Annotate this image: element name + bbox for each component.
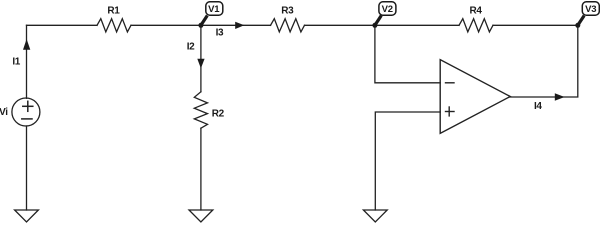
svg-text:I2: I2 <box>187 42 195 53</box>
svg-text:V3: V3 <box>585 4 596 15</box>
svg-text:R3: R3 <box>281 6 294 17</box>
wire V2 to op-amp inverting input <box>375 25 440 83</box>
wire node V2 to R4 <box>375 24 459 26</box>
wire left branch lower <box>26 126 28 210</box>
svg-text:R4: R4 <box>470 6 483 17</box>
resistor R3 <box>271 19 305 32</box>
node flag V3 <box>578 2 600 26</box>
voltage source Vi <box>12 98 40 126</box>
svg-text:I3: I3 <box>216 28 224 39</box>
svg-text:Vi: Vi <box>0 107 8 118</box>
wire R2 branch upper <box>200 25 202 92</box>
node flag V2 <box>375 2 396 26</box>
svg-text:I4: I4 <box>534 101 542 112</box>
wire op-amp output to V3 <box>510 25 578 97</box>
wire R4 to V3 <box>493 24 578 26</box>
svg-text:R2: R2 <box>212 109 225 120</box>
current arrow I2 <box>197 59 204 69</box>
resistor R1 <box>97 19 131 32</box>
ground under op-amp + input <box>363 210 387 222</box>
wire top left segment <box>27 24 98 26</box>
ground under Vi <box>15 210 39 222</box>
wire left branch upper <box>26 25 28 98</box>
svg-text:V1: V1 <box>208 4 220 15</box>
svg-text:R1: R1 <box>107 6 120 17</box>
ground under R2 <box>189 210 213 222</box>
svg-text:I1: I1 <box>12 56 20 67</box>
wire node V1 to R3 <box>201 24 271 26</box>
op-amp U1 <box>440 60 510 134</box>
node V1 junction dot <box>198 23 203 28</box>
wire R3 to node V2 <box>305 24 375 26</box>
current arrow I4 <box>555 93 565 101</box>
wire R2 branch lower <box>200 128 202 210</box>
current arrow I3 <box>235 22 244 29</box>
node V2 junction dot <box>372 23 377 28</box>
node V3 junction dot <box>575 23 580 28</box>
current arrow I1 <box>23 39 30 50</box>
resistor R2 <box>194 92 207 128</box>
wire ground to op-amp non-inverting input <box>375 112 440 210</box>
resistor R4 <box>459 19 493 32</box>
svg-text:V2: V2 <box>382 4 393 15</box>
wire R1 to node V1 <box>131 24 201 26</box>
node flag V1 <box>201 2 223 26</box>
